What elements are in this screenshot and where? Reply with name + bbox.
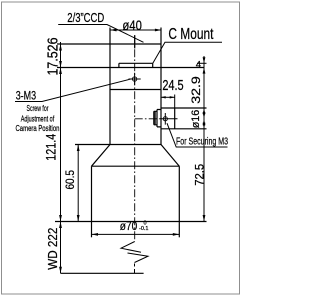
svg-text:ø70: ø70 — [120, 219, 138, 233]
C-mount thread right side — [152, 63, 154, 67]
cylinder left wall — [91, 166, 93, 237]
trapezoid right diagonal — [161, 145, 179, 167]
dim 60.5 — [77, 145, 79, 222]
body left edge — [109, 28, 111, 145]
shoulder line — [75, 144, 161, 146]
break zigzag — [121, 242, 141, 253]
svg-text:ø40: ø40 — [122, 18, 141, 33]
boss axis center line — [135, 118, 160, 120]
boss on right side — [161, 107, 207, 109]
dim ø40 — [110, 29, 161, 31]
svg-text:For Securing M3: For Securing M3 — [176, 137, 228, 148]
vertical center line — [134, 35, 136, 241]
svg-text:3-M3: 3-M3 — [16, 88, 37, 102]
svg-text:2/3”CCD: 2/3”CCD — [67, 10, 104, 25]
trapezoid left diagonal — [92, 145, 111, 167]
svg-text:C Mount: C Mount — [168, 26, 213, 43]
svg-text:32.9: 32.9 — [189, 76, 203, 104]
svg-text:121.4: 121.4 — [44, 133, 59, 160]
boss step2 with slot — [154, 111, 157, 125]
internal CCD line — [110, 89, 161, 91]
right dimension line A (4 / 32.9 / ø16) — [203, 56, 205, 222]
svg-text:17.526: 17.526 — [45, 38, 62, 76]
body right edge — [160, 28, 162, 145]
dim 72.5 — [203, 119, 206, 126]
cylinder right wall — [178, 166, 180, 237]
object plane line — [61, 272, 144, 274]
C-mount thread left side — [118, 63, 120, 67]
dim 24.5 — [161, 96, 175, 98]
svg-text:4: 4 — [196, 60, 201, 71]
svg-text:24.5: 24.5 — [162, 78, 183, 94]
boss face extension — [174, 95, 176, 109]
svg-text:ø16: ø16 — [190, 110, 202, 129]
boss step1 — [157, 110, 161, 127]
svg-text:WD 222: WD 222 — [46, 228, 60, 270]
svg-text:60.5: 60.5 — [63, 170, 77, 190]
svg-text:Camera Position: Camera Position — [16, 123, 60, 133]
svg-text:72.5: 72.5 — [195, 164, 207, 186]
adjustment screw crosshair — [132, 77, 136, 81]
cylinder top — [92, 165, 180, 167]
node sensor-plane center mark — [134, 35, 136, 48]
svg-text:-0.1: -0.1 — [139, 226, 148, 232]
svg-text:Screw for: Screw for — [27, 103, 49, 113]
label For Securing M3 — [167, 123, 228, 147]
flange surface line — [57, 67, 205, 69]
border frame — [2, 2, 240, 294]
dim ø70 — [92, 233, 180, 235]
camera top face / sensor plane — [57, 43, 161, 45]
lens bottom edge — [55, 221, 207, 223]
C-mount thread top — [119, 62, 153, 64]
dim 17.526 / 121.4 / WD main dimension line — [60, 42, 62, 273]
svg-text:Adjustment of: Adjustment of — [21, 113, 55, 123]
boss screw crosshair — [163, 117, 167, 121]
